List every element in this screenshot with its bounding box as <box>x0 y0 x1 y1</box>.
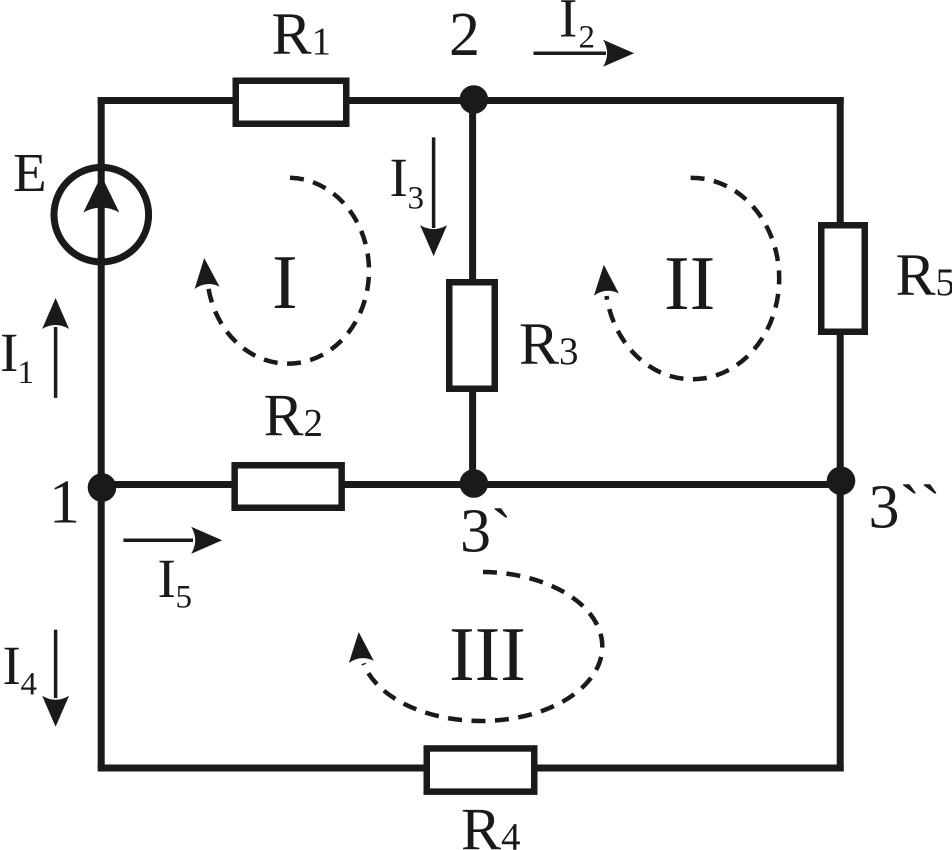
svg-text:I: I <box>158 548 176 609</box>
svg-text:3``: 3`` <box>869 474 941 542</box>
svg-text:I: I <box>0 322 18 383</box>
current arrow I3 <box>420 137 447 256</box>
svg-text:5: 5 <box>176 580 193 616</box>
svg-text:I: I <box>272 239 298 325</box>
svg-text:I: I <box>559 0 577 49</box>
svg-text:3`: 3` <box>460 498 512 566</box>
wire right vertical <box>837 97 844 772</box>
svg-text:II: II <box>664 240 715 326</box>
svg-text:E: E <box>13 142 47 203</box>
svg-text:I: I <box>3 635 21 696</box>
resistor R5 <box>821 225 865 332</box>
wire top <box>98 97 844 104</box>
node 2 <box>460 85 489 114</box>
loop arrow III (dashed) <box>364 572 603 721</box>
svg-text:1: 1 <box>18 355 35 391</box>
svg-text:4: 4 <box>21 667 38 703</box>
svg-text:R1: R1 <box>272 1 332 67</box>
node 3`` <box>827 467 856 496</box>
wire branch node 2 to node 3` <box>469 101 476 485</box>
wire middle (node 1 to node 3``) <box>98 481 840 488</box>
resistor R3 <box>449 282 495 389</box>
svg-text:1: 1 <box>49 469 80 537</box>
svg-text:2: 2 <box>579 20 596 56</box>
current arrow I4 <box>42 630 69 727</box>
resistor R2 <box>235 465 342 508</box>
node 3` <box>460 469 489 498</box>
svg-text:3: 3 <box>408 181 425 217</box>
wire bottom <box>98 765 844 772</box>
loop arrow I (dashed) <box>209 178 369 364</box>
node 1 <box>88 473 117 502</box>
current arrow I1 <box>42 298 69 398</box>
current arrow I5 <box>123 527 222 554</box>
resistor R4 <box>427 748 535 791</box>
current arrow I2 <box>534 40 635 67</box>
svg-text:R5: R5 <box>896 242 952 308</box>
source E arrow <box>83 176 119 213</box>
svg-text:R2: R2 <box>264 383 324 449</box>
svg-text:R4: R4 <box>461 797 521 850</box>
svg-text:I: I <box>390 147 408 208</box>
svg-text:III: III <box>449 611 526 697</box>
source E <box>54 167 149 262</box>
svg-text:2: 2 <box>449 1 480 69</box>
wire left vertical <box>98 97 105 768</box>
svg-text:R3: R3 <box>519 311 579 377</box>
resistor R1 <box>236 81 347 124</box>
loop arrow II (dashed) <box>607 178 780 379</box>
